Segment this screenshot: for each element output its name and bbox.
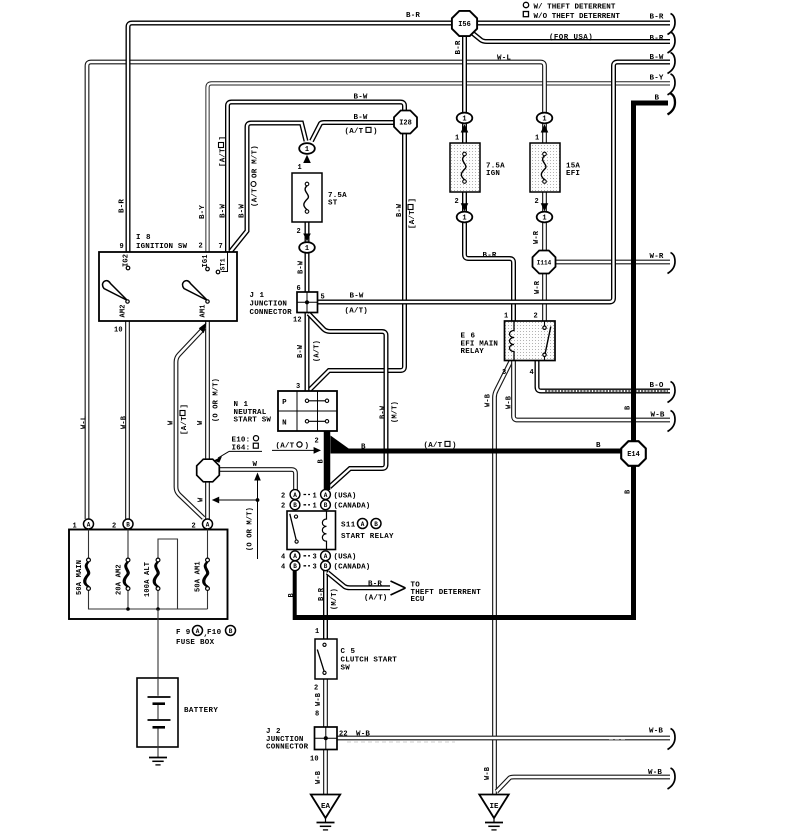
svg-text:B: B [624,405,632,410]
svg-text:(A/T): (A/T) [313,340,321,362]
svg-text:B-R: B-R [118,199,126,213]
wire B-R from 7.5A IGN fuse to E6 pin 1 [465,192,514,321]
svg-text:W-L: W-L [497,55,511,63]
svg-text:(M/T): (M/T) [391,401,399,423]
label A/T-sq vertical detour [180,404,189,435]
arrow up ST top [303,155,311,163]
edge hook B-Y [668,74,676,95]
svg-text:A: A [324,553,328,560]
svg-text:1: 1 [462,116,466,124]
arrowhead at octagon [214,456,222,463]
junction connector J2 [315,727,338,750]
svg-text:B: B [324,502,328,509]
svg-text:W-B: W-B [315,770,323,784]
svg-text:B: B [324,563,328,570]
arrow down ST bottom [303,234,311,242]
svg-text:IG1: IG1 [202,254,210,267]
svg-text:B-W: B-W [350,293,364,301]
svg-text:E14: E14 [627,451,640,459]
svg-text:IE: IE [489,803,499,811]
wire B-W A/T-sq from I28 to N1 pin 3 [309,131,405,391]
svg-text:9: 9 [120,243,124,251]
fuse 100A ALT [156,558,160,562]
wire B-Y from ignition switch IG1 to right edge [208,83,671,267]
label (A/T sq) on thick wire [424,441,457,450]
edge hook W-B 22 [668,729,676,750]
svg-text:B-R: B-R [318,587,326,601]
svg-text:W: W [253,461,258,469]
svg-text:5: 5 [321,294,325,302]
svg-text:B-R: B-R [650,35,664,43]
wire W-L from fuse box 1A up/right to 15A EFI fuse [87,62,545,519]
svg-text:I114: I114 [537,260,552,267]
ground IE [479,795,508,819]
E6 coil [510,321,515,361]
fuse element 7.5A IGN [463,152,467,156]
wire W-B E6 pin 3 to right edge [514,361,671,420]
wire B thick N1 pin 2 to start relay 1A [324,430,331,490]
fuse element 15A EFI [543,152,547,156]
svg-text:]: ] [409,198,417,203]
svg-text:(A/T): (A/T) [364,595,388,603]
arrowhead right at N1 pin 2 wire [314,447,321,454]
terminal oval EFI bottom [537,212,553,223]
fuse box bottom bus [89,591,208,610]
wire B-R (FOR USA) from I56 to right edge [468,30,670,42]
legend circle W/ THEFT DETERRENT [523,2,528,7]
svg-text:W-B: W-B [484,393,492,407]
svg-text:A: A [206,521,210,528]
svg-text:E10:: E10: [232,437,251,445]
contact IG1 [206,267,210,271]
svg-text:IG2: IG2 [122,254,130,267]
wire B-O dashed core [545,390,668,392]
leader diagonal to octagon [218,451,229,458]
terminal oval IGN top [457,113,473,124]
svg-text:B-Y: B-Y [199,205,207,219]
connector E10/I64 octagon [197,459,220,482]
fuse box 100A ALT bottom [157,591,159,610]
svg-text:S11: S11 [341,522,356,530]
edge hook B thick [668,94,676,115]
neutral start switch N1 box [278,391,337,431]
svg-text:A: A [293,553,297,560]
fuse box 100A ALT top loop [158,539,178,609]
wire W ignition switch AM1 down through octagon to fuse box 2A [205,321,210,519]
svg-text:OR M/T): OR M/T) [251,145,259,178]
wire W-B branch to right edge near IE [497,777,671,792]
svg-text:[A/T: [A/T [181,416,189,435]
svg-text:(A/T): (A/T) [345,308,369,316]
svg-text:B: B [361,444,366,452]
svg-text:START SW: START SW [234,417,272,425]
svg-text:W-B: W-B [651,412,665,420]
svg-text:(A/T: (A/T [251,188,259,207]
svg-text:B: B [655,95,660,103]
svg-text:B: B [126,521,130,528]
svg-text:10: 10 [310,756,319,764]
svg-text:B-R: B-R [406,12,420,20]
terminal oval EFI top [537,113,553,124]
svg-text:8: 8 [315,711,319,719]
svg-text:CLUTCH START: CLUTCH START [341,657,398,665]
svg-text:50A AM1: 50A AM1 [194,561,202,592]
wire B thick trunk right edge via E14 to start relay 4A [295,103,668,618]
fuse 20A AM2 [126,558,130,562]
svg-text:): ) [452,442,457,450]
svg-text:2: 2 [199,243,203,251]
note pointer arrow line to W wire [216,499,258,501]
arrow up EFI [541,124,549,132]
wire B-R from I56 to right edge [477,21,670,26]
svg-text:W-R: W-R [534,280,542,294]
edge hook W-R [668,253,676,274]
svg-text:50A MAIN: 50A MAIN [76,560,84,595]
fuse box wiring 50A MAIN top [88,530,90,559]
svg-text:J 1: J 1 [250,292,265,300]
svg-text:B-W: B-W [297,260,305,274]
svg-text:F10: F10 [207,629,222,637]
svg-text:ST: ST [328,200,338,208]
wire B thick stub start relay 4B [293,570,297,620]
svg-text:IGNITION SW: IGNITION SW [136,243,188,251]
svg-text:B-R: B-R [455,40,463,54]
S11 coil [322,511,326,550]
svg-text:W-L: W-L [80,416,88,429]
E6 switch [544,321,546,326]
svg-text:B-W: B-W [379,405,387,419]
wire battery to ground [157,747,159,758]
svg-text:B-W: B-W [238,204,246,218]
wire W-B E6 pin 3 down to ground IE [495,361,512,794]
N1 P contact [305,399,308,402]
svg-text:B-W: B-W [219,204,227,218]
arrow down EFI [541,203,549,211]
clutch start switch C5 box [315,639,337,679]
label (A/T sq) near I28 [345,127,378,136]
svg-text:1: 1 [535,135,539,143]
edge hook W-B 2 [668,768,676,789]
svg-text:2: 2 [297,228,301,236]
edge hook B-W [668,53,676,74]
svg-text:A: A [196,628,200,635]
svg-text:2: 2 [535,198,539,206]
wire fuse box to battery [157,609,159,678]
battery box [137,678,178,747]
svg-text:(O OR M/T): (O OR M/T) [212,378,220,422]
svg-text:W-B: W-B [648,769,662,777]
svg-text:FUSE BOX: FUSE BOX [176,639,215,647]
S11 switch [294,515,297,518]
fuse 50A MAIN [87,558,91,562]
fuse box 50A AM1 top [207,530,209,559]
svg-text:2: 2 [314,685,318,693]
wire dashed artifact [347,741,455,743]
svg-text:W/O THEFT DETERRENT: W/O THEFT DETERRENT [534,13,621,21]
fuse element 7.5A ST [305,182,309,186]
note pointer line (O OR M/T) [257,477,259,559]
arrow down IGN [461,203,469,211]
svg-text:W-B: W-B [484,766,492,780]
svg-text:20A AM2: 20A AM2 [115,564,123,595]
svg-text:3: 3 [313,564,317,572]
svg-text:1: 1 [504,313,508,321]
svg-text:I56: I56 [458,21,471,29]
fuse box 20A AM2 bottom [127,591,129,610]
wire B-O E6 pin 4 to right edge [537,361,670,392]
svg-text:A: A [293,492,297,499]
svg-text:P: P [282,399,287,407]
svg-text:4: 4 [281,564,285,572]
connector I28 [394,111,417,134]
svg-text:B-W: B-W [650,54,664,62]
svg-text:I64:: I64: [232,445,251,453]
fuse 7.5A ST box [292,173,322,222]
svg-text:12: 12 [293,317,302,325]
svg-text:(A/T: (A/T [424,442,443,450]
svg-text:ECU: ECU [411,596,425,604]
svg-text:N: N [282,420,287,428]
svg-text:BATTERY: BATTERY [184,707,218,715]
svg-text:B: B [596,442,601,450]
edge hook B-R 1 [668,14,676,35]
svg-text:(M/T): (M/T) [331,588,339,610]
theft deterrent arrowhead [391,581,406,595]
label A/T-circle OR M/T vertical [251,145,259,207]
arrowhead left at W wire [212,497,219,504]
wire W-B 22 from J2 to right edge [337,736,670,741]
svg-text:J 2: J 2 [266,728,281,736]
svg-text:1: 1 [313,503,317,511]
edge hook B-R 2 [668,32,676,53]
arrow up IGN [461,124,469,132]
svg-text:CONNECTOR: CONNECTOR [266,744,309,752]
wire B thick A/T-sq to E14 [346,449,629,454]
svg-text:3: 3 [502,369,506,377]
svg-text:W: W [197,420,205,425]
svg-text:6: 6 [297,285,301,293]
svg-text:(A/T: (A/T [345,128,364,136]
svg-text:B: B [229,628,233,635]
label A/T-sq vertical below I28 [408,198,417,229]
wire W-B clutch start switch to J2 [323,679,328,727]
svg-text:1: 1 [305,245,309,253]
svg-text:AM2: AM2 [119,304,127,317]
arrowhead up at W wire [254,473,261,481]
svg-text:3: 3 [313,554,317,562]
svg-text:IGN: IGN [486,170,500,178]
svg-text:N 1: N 1 [234,401,249,409]
svg-text:E 6: E 6 [461,333,476,341]
fuse box F9/F10 [69,530,228,620]
svg-text:4: 4 [530,369,534,377]
svg-text:1: 1 [315,628,319,636]
svg-text:W-B: W-B [315,692,323,706]
wire W-R from 15A EFI fuse through I114 to E6 pin 2 [542,192,547,321]
svg-text:[A/T: [A/T [409,210,417,229]
wire W-B J2 to ground EA [323,750,328,796]
wire W-R from I114 to right edge [554,260,670,265]
svg-text:1: 1 [305,146,309,154]
svg-text:RELAY: RELAY [461,348,485,356]
svg-text:W/ THEFT DETERRENT: W/ THEFT DETERRENT [534,4,616,12]
wire B-W 7.5A ST fuse to I28 [312,123,397,142]
wire B-R to theft deterrent ECU [328,573,391,588]
svg-text:C 5: C 5 [341,648,356,656]
svg-text:2: 2 [281,492,285,500]
svg-text:B-Y: B-Y [650,75,664,83]
wiper AM1 [183,281,208,301]
svg-text:1: 1 [298,164,302,172]
wire B-W 7.5A ST fuse to J1 pin 6 [305,222,310,293]
svg-text:2: 2 [534,313,538,321]
svg-text:7: 7 [219,243,223,251]
svg-text:2: 2 [315,438,319,446]
svg-text:B: B [293,563,297,570]
svg-text:EA: EA [321,803,331,811]
svg-text:2: 2 [281,503,285,511]
ignition switch I8 box [99,252,237,321]
start relay S11 box [287,511,336,550]
svg-text:B-W: B-W [297,344,305,358]
arrowhead on AM1 detour wire [199,323,207,334]
terminal oval IGN bottom [457,212,473,223]
connector E14 [621,441,646,466]
wire B-W ignition ST1 A/T-sq up to I28 [228,102,405,252]
svg-text:B: B [624,489,632,494]
svg-text:W: W [197,497,205,502]
svg-text:2: 2 [455,198,459,206]
junction connector J1 [297,292,318,313]
svg-text:W-B: W-B [356,731,370,739]
ground EA [311,795,340,819]
svg-text:B-W: B-W [354,114,368,122]
svg-text:A: A [324,492,328,499]
wire B-R start relay 3B to clutch start switch [323,570,328,639]
svg-text:SW: SW [341,665,351,673]
wire B-W M/T detour J1 pin 12 to start relay trunk [309,314,387,488]
label (A/T circle) [276,442,310,450]
wire B-W from J1 pin 5 to right edge [318,62,670,302]
svg-text:(FOR USA): (FOR USA) [549,34,593,42]
wire B wedge join [331,436,350,454]
svg-text:): ) [305,442,310,450]
connector I56 [452,11,477,36]
svg-text:1: 1 [313,492,317,500]
svg-text:(O OR M/T): (O OR M/T) [246,507,254,551]
svg-text:W-R: W-R [533,230,541,244]
svg-text:): ) [373,128,378,136]
svg-text:W-R: W-R [650,253,664,261]
svg-text:1: 1 [542,116,546,124]
svg-text:I28: I28 [399,120,412,128]
svg-text:B-W: B-W [396,203,404,217]
svg-text:A: A [87,521,91,528]
N1 N contact [305,420,308,423]
svg-text:(USA): (USA) [334,554,357,562]
svg-text:W-B: W-B [649,728,663,736]
svg-text:B-O: B-O [650,382,664,390]
svg-text:]: ] [219,136,227,141]
svg-text:100A ALT: 100A ALT [144,562,152,597]
svg-text:]: ] [181,404,189,409]
wire W A/T-variant detour around connector [176,328,205,519]
fuse box wiring 20A AM2 top [127,530,129,559]
svg-text:[A/T: [A/T [219,148,227,167]
svg-text:JUNCTION: JUNCTION [250,301,288,309]
wire W-B ignition switch AM2 to fuse box 2B [125,321,130,519]
svg-text:B-R: B-R [483,252,497,260]
wire B-R from I56 down to 7.5A IGN fuse [462,30,467,143]
fuse 7.5A IGN box [450,143,480,192]
svg-text:10: 10 [114,327,123,335]
wire B-W A/T J1 pin 12 to N1 pin 3 [305,312,310,391]
svg-text:AM1: AM1 [199,304,207,317]
svg-text:3: 3 [296,383,300,391]
contact IG2 [126,266,130,270]
wire B-W ST1 A/T-circle-or-M/T to 7.5A ST fuse [231,123,307,252]
svg-text:B: B [374,521,378,528]
svg-text:W-B: W-B [505,395,513,409]
svg-text:B-W: B-W [354,94,368,102]
svg-text:1: 1 [542,215,546,223]
ST1 compartment [222,252,228,272]
svg-text:W: W [167,420,175,425]
svg-text:(CANADA): (CANADA) [334,503,371,511]
svg-text:CONNECTOR: CONNECTOR [250,309,293,317]
wire B-R ignition switch IG2 up to I56 [128,23,452,267]
fuse 50A AM1 [206,558,210,562]
svg-text:START RELAY: START RELAY [341,533,394,541]
arrow line (A/T O) to N1 pin 2 wire [272,449,316,451]
svg-text:F 9: F 9 [176,629,191,637]
svg-text:22: 22 [339,731,348,739]
fuse box 50A AM1 bottom [207,591,209,610]
battery cells [157,678,159,747]
edge hook W-B 1 [668,411,676,432]
svg-text:A: A [361,521,365,528]
svg-text:EFI: EFI [566,170,580,178]
svg-text:W-B: W-B [120,415,128,429]
svg-text:B: B [317,459,325,464]
svg-text:(USA): (USA) [334,492,357,500]
EFI main relay E6 box [505,321,556,361]
svg-text:1: 1 [462,215,466,223]
svg-text:B-R: B-R [650,14,664,22]
svg-text:B-R: B-R [368,581,382,589]
terminal oval ST top [299,143,315,154]
terminal oval ST bottom [299,242,315,253]
svg-text:ST1: ST1 [219,258,226,270]
svg-text:(CANADA): (CANADA) [334,564,371,572]
wiper AM2 [103,281,128,301]
connector I114 [533,251,556,274]
svg-text:I 8: I 8 [136,234,151,242]
wire dashed artifact 2 [609,739,626,741]
label A/T-sq vertical 1 [219,136,228,167]
ground battery [149,757,167,759]
svg-text:B: B [288,593,296,598]
svg-text:1: 1 [455,135,459,143]
leader line under E10/I64 note [229,450,262,452]
legend square W/O THEFT DETERRENT [523,12,528,17]
svg-text:B: B [293,502,297,509]
fuse 15A EFI box [530,143,560,192]
wire W from octagon E10/I64 to start relay pin 2A [219,470,296,491]
svg-text:4: 4 [281,554,285,562]
svg-text:(A/T: (A/T [276,442,295,450]
edge hook B-O [668,382,676,403]
